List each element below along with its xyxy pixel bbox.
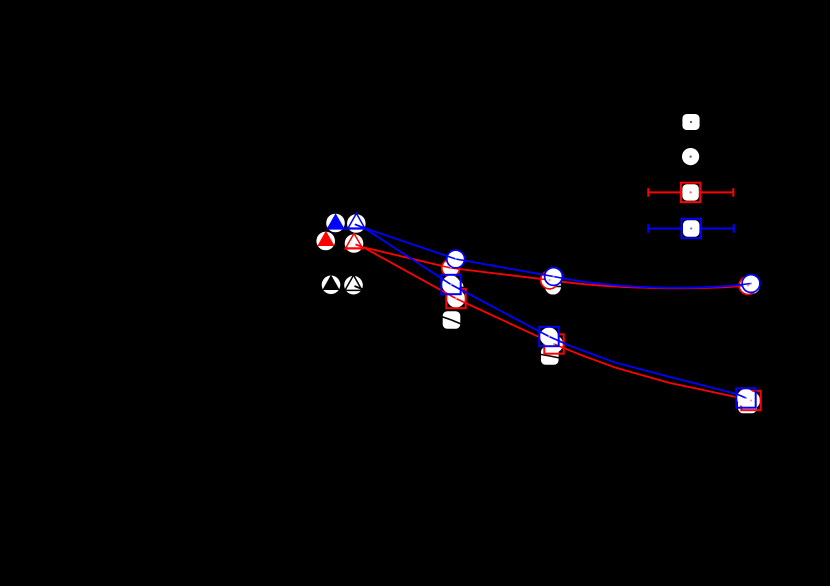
node: blue square marker n=16 <box>736 388 755 407</box>
node: black filled-triangle baseline marker <box>322 275 341 294</box>
wire: blue lines re-drawn over own markers <box>364 228 751 288</box>
node: black square marker n=4 <box>541 347 559 365</box>
legend symbol: red error bar <box>648 188 733 197</box>
node: black circle marker n=2 <box>447 279 465 297</box>
wire: red lines re-drawn over own markers <box>363 247 748 288</box>
node: black open-triangle marker <box>344 275 363 294</box>
wire: red circle-series line <box>363 247 748 288</box>
node: black circle marker n=16 <box>743 277 761 295</box>
wire: blue line stubs over open triangle <box>355 224 364 228</box>
wire: black line re-drawn over own square markers <box>362 289 747 404</box>
wire: blue square-series line <box>364 228 746 398</box>
node: red square marker n=4 <box>544 334 563 353</box>
legend symbol: red square marker <box>681 183 700 202</box>
node: red square marker n=2 <box>446 289 465 308</box>
node: blue open-triangle marker <box>327 213 366 232</box>
node: red filled-triangle baseline marker <box>316 231 335 251</box>
node: red square marker n=16 <box>741 391 760 410</box>
legend symbol: blue error bar <box>648 224 734 233</box>
wire: black circle line re-drawn over own markers <box>362 286 752 289</box>
wire: black line stubs over open triangle <box>355 286 363 289</box>
node: black square marker n=16 <box>738 394 757 413</box>
node: red circle marker n=4 <box>541 271 559 289</box>
node: blue square marker n=4 <box>539 327 558 346</box>
node: blue filled-triangle baseline marker <box>326 213 345 232</box>
node: black square marker n=2 <box>443 311 461 329</box>
wire: red line stubs over open triangle <box>356 244 364 247</box>
node: marker center dots <box>450 258 752 399</box>
legend symbol: white square marker <box>682 114 699 130</box>
wire: red square-series line <box>363 247 751 400</box>
node: blue square marker n=2 <box>441 275 460 294</box>
node: red open-triangle marker <box>345 233 364 252</box>
node: blue circle marker n=2 <box>447 250 465 268</box>
node: red circle marker n=16 <box>739 277 757 295</box>
node: black circle marker n=4 <box>544 278 562 296</box>
node: blue circle marker n=4 <box>545 268 563 286</box>
legend symbol: blue square marker <box>682 219 701 238</box>
node: blue circle marker n=16 <box>742 275 760 293</box>
wire: blue circle-series line <box>364 228 751 288</box>
wire: black circle-series line <box>362 286 752 289</box>
legend symbol: white circle marker <box>682 148 699 165</box>
wire: black square-series line <box>362 289 747 404</box>
node: red circle marker n=2 <box>442 259 460 277</box>
